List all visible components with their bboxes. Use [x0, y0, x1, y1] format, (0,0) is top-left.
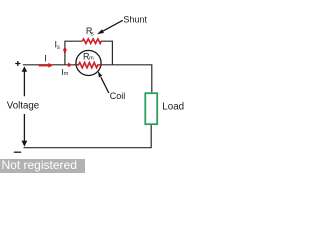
svg-text:Shunt: Shunt — [123, 15, 147, 25]
svg-text:Load: Load — [162, 101, 184, 112]
svg-text:m: m — [64, 71, 69, 77]
svg-text:s: s — [57, 45, 60, 51]
svg-text:Voltage: Voltage — [7, 100, 39, 111]
svg-text:I: I — [44, 53, 47, 63]
svg-text:Coil: Coil — [110, 91, 126, 101]
svg-text:s: s — [91, 32, 94, 38]
svg-text:m: m — [89, 56, 94, 62]
